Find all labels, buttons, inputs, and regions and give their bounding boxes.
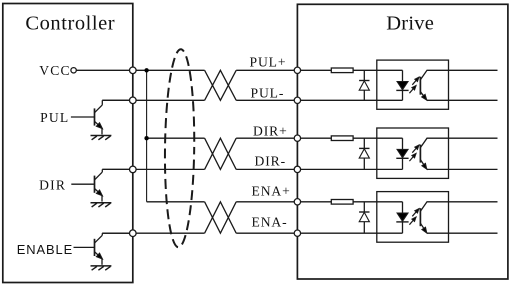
svg-text:ENABLE: ENABLE xyxy=(17,242,73,257)
svg-text:DIR+: DIR+ xyxy=(253,123,288,138)
svg-text:PUL-: PUL- xyxy=(251,86,285,101)
svg-text:ENA-: ENA- xyxy=(252,214,288,229)
svg-text:VCC: VCC xyxy=(39,63,71,78)
svg-text:DIR-: DIR- xyxy=(255,154,287,169)
svg-text:Controller: Controller xyxy=(25,13,115,35)
svg-text:PUL: PUL xyxy=(40,110,69,125)
svg-text:Drive: Drive xyxy=(386,13,434,35)
svg-text:DIR: DIR xyxy=(39,178,66,193)
svg-text:PUL+: PUL+ xyxy=(250,55,287,70)
svg-text:ENA+: ENA+ xyxy=(252,184,291,199)
